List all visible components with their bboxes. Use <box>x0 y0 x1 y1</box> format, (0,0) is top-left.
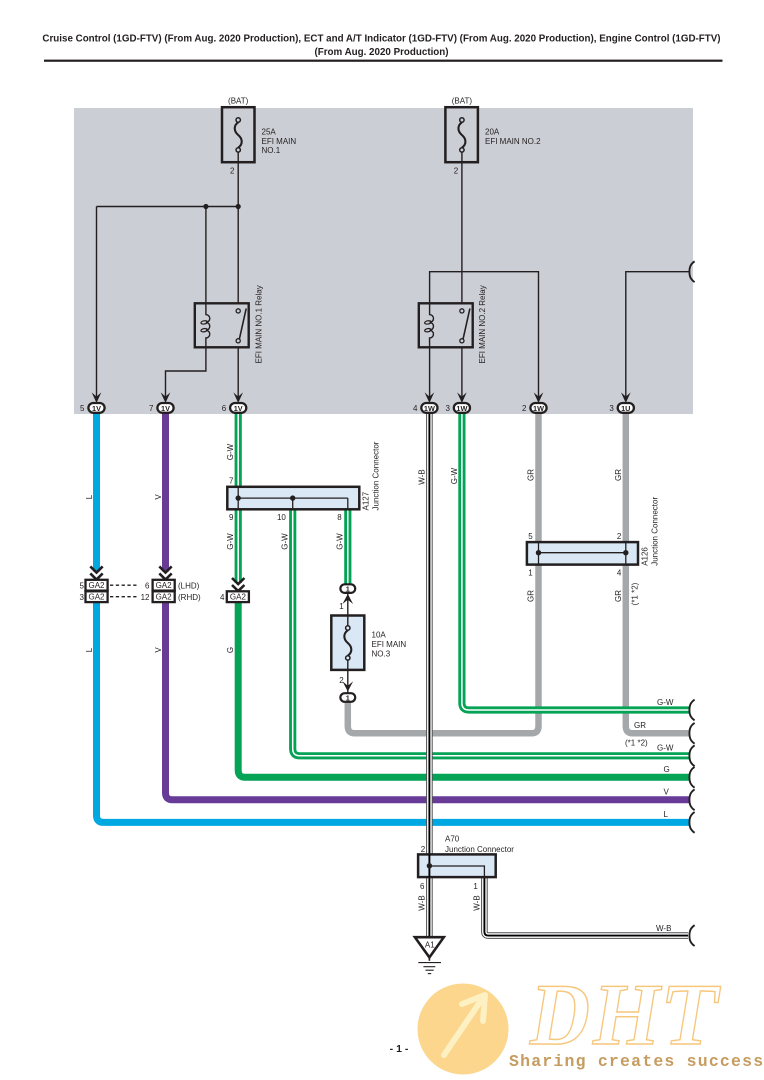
svg-text:3: 3 <box>80 593 85 602</box>
wire G-W oval 6-1V to A127 pin7 <box>235 413 242 488</box>
svg-text:GA2: GA2 <box>88 581 105 590</box>
svg-text:8: 8 <box>337 513 342 522</box>
svg-text:GR: GR <box>614 469 623 481</box>
wire junction horizontal to left branch <box>97 206 239 208</box>
gray panel <box>74 108 693 414</box>
wire V purple lower segment below GA2 to bus and break <box>166 602 691 800</box>
svg-text:(BAT): (BAT) <box>228 97 249 106</box>
fuse 25A EFI MAIN NO.1 <box>222 97 296 176</box>
svg-text:L: L <box>664 810 669 819</box>
svg-text:Sharing creates success: Sharing creates success <box>509 1052 764 1071</box>
svg-text:G-W: G-W <box>657 744 674 753</box>
svg-text:7: 7 <box>149 404 154 413</box>
svg-text:12: 12 <box>141 593 150 602</box>
junction connector A127 box <box>227 487 359 510</box>
svg-text:GR: GR <box>614 590 623 602</box>
svg-text:Cruise Control (1GD-FTV) (From: Cruise Control (1GD-FTV) (From Aug. 2020… <box>42 34 720 45</box>
junction dot fuse1/coil branch <box>203 204 208 209</box>
svg-text:1: 1 <box>528 569 533 578</box>
wire L cyan lower segment below GA2 to bus and break <box>97 602 691 822</box>
svg-text:5: 5 <box>80 404 85 413</box>
svg-text:(*1 *2): (*1 *2) <box>631 582 640 605</box>
svg-text:V: V <box>154 494 163 500</box>
svg-text:4: 4 <box>220 593 225 602</box>
svg-text:(BAT): (BAT) <box>452 97 473 106</box>
svg-text:4: 4 <box>617 569 622 578</box>
wire fuse1 to relay1 switch <box>237 162 239 304</box>
connector GA2 pin3 box (RHD row, L wire) <box>86 591 108 602</box>
fuse EFI MAIN NO.3 bottom terminal <box>346 656 350 660</box>
svg-text:GA2: GA2 <box>230 593 247 602</box>
connector GA2 pin12 box (RHD row, V wire) <box>153 591 175 602</box>
ground bar 1 <box>418 962 441 964</box>
wire A127 internal to pin10 <box>292 498 294 509</box>
wire fuse NO.3 internal top lead <box>347 616 349 626</box>
relay NO.2 coil <box>430 304 434 347</box>
svg-text:EFI MAIN NO.1 Relay: EFI MAIN NO.1 Relay <box>255 285 264 363</box>
svg-text:10: 10 <box>277 513 286 522</box>
wire fuse NO.3 internal bottom lead <box>347 660 349 670</box>
svg-text:(*1 *2): (*1 *2) <box>625 739 648 748</box>
svg-text:GR: GR <box>634 721 646 730</box>
ground bar 4 <box>428 973 431 975</box>
fuse EFI MAIN NO.1 top terminal <box>236 118 240 122</box>
fuse EFI MAIN NO.2 bottom terminal <box>460 148 464 152</box>
wire G-W A127 pin9 to GA2 4 <box>235 509 242 584</box>
svg-text:25A: 25A <box>262 128 277 137</box>
relay NO.2 switch blade <box>462 309 470 343</box>
svg-text:EFI MAIN: EFI MAIN <box>372 640 407 649</box>
svg-text:1U: 1U <box>621 404 630 413</box>
svg-text:1: 1 <box>346 585 350 594</box>
fuse EFI MAIN NO.1 element <box>235 122 242 147</box>
svg-text:G: G <box>664 765 670 774</box>
wire W-B vertical: oval 4-1W to A70 <box>426 413 433 855</box>
wire GR: A126 pin4 down to bus, right to break <box>626 564 690 733</box>
wire relay1 coil out jog to 7-1V <box>166 347 206 400</box>
fuse EFI MAIN NO.3 box <box>331 616 364 670</box>
svg-text:3: 3 <box>445 404 450 413</box>
svg-text:A126: A126 <box>640 547 649 566</box>
svg-text:Junction Connector: Junction Connector <box>650 497 659 566</box>
relay EFI MAIN NO.1 Relay box <box>195 303 249 347</box>
wire GR: oval 3-1U down to A126 pin2 <box>623 413 630 543</box>
relay NO.2 switch bottom contact <box>460 339 464 343</box>
wire relay2 switch out to 3-1W <box>461 347 463 400</box>
wire G green solid: below GA2 4 to bus <box>238 596 690 777</box>
svg-text:EFI MAIN: EFI MAIN <box>262 137 297 146</box>
svg-text:2: 2 <box>339 676 344 685</box>
wire fuse3 top oval stub <box>347 594 349 616</box>
svg-text:6: 6 <box>145 582 150 591</box>
svg-text:1W: 1W <box>424 404 435 413</box>
junction dot A127 left <box>236 495 241 500</box>
fuse EFI MAIN NO.3 element <box>344 630 351 655</box>
svg-text:3: 3 <box>609 404 614 413</box>
fuse 10A EFI MAIN NO.3 <box>331 616 406 670</box>
arrow into GA2 G-W wire lower chevron <box>232 585 244 591</box>
svg-text:GR: GR <box>527 469 536 481</box>
svg-text:DHT: DHT <box>525 966 730 1063</box>
arrow into GA2 G-W wire upper chevron <box>232 578 244 584</box>
fuse EFI MAIN NO.1 box <box>222 107 255 162</box>
junction dot A70 <box>427 863 432 868</box>
svg-text:G-W: G-W <box>336 533 345 550</box>
relay NO.1 switch bottom contact <box>236 339 240 343</box>
svg-text:Junction Connector: Junction Connector <box>372 441 381 510</box>
svg-text:5: 5 <box>528 532 533 541</box>
svg-text:6: 6 <box>420 882 425 891</box>
wire GR: oval 2-1W down to A126 pin5 <box>535 413 542 543</box>
svg-text:1V: 1V <box>234 404 243 413</box>
svg-text:L: L <box>85 647 94 652</box>
wire A126 internal pin5 to pin1 <box>538 542 540 565</box>
svg-text:GA2: GA2 <box>88 593 105 602</box>
connector GA2 pin4 box (G wire) <box>227 591 249 602</box>
wire GR: fuse NO.3 bottom oval right and up to A126 pin1 <box>348 564 539 733</box>
wire L cyan: oval 5-1V down through GA2 to bus, right to break <box>93 413 100 572</box>
svg-text:G-W: G-W <box>657 698 674 707</box>
svg-text:1: 1 <box>339 602 344 611</box>
connector GA2 pin5 box (LHD row, L wire) <box>86 580 108 591</box>
svg-text:1W: 1W <box>456 404 467 413</box>
svg-text:G-W: G-W <box>226 533 235 550</box>
svg-text:9: 9 <box>229 513 234 522</box>
arrow into connector 4-1W <box>425 392 435 403</box>
ground stem <box>428 957 430 960</box>
svg-text:L: L <box>85 494 94 499</box>
dashed link LHD row <box>110 584 137 586</box>
wire left branch down to 5-1V <box>96 207 98 401</box>
title <box>42 34 720 59</box>
wire A70 internal pin2 to pin6 <box>428 854 430 877</box>
connector oval 1W pin 4 <box>421 403 437 413</box>
relay NO.1 switch blade <box>239 309 247 343</box>
break V bus <box>689 789 694 810</box>
connector oval 1V pin 6 <box>230 403 246 413</box>
wire relay2 coil out to 4-1W <box>429 347 431 400</box>
arrow into connector 3-1U <box>621 392 631 403</box>
arrow into connector 2-1W <box>534 392 544 403</box>
wire fuse NO.2 internal lead <box>461 152 463 162</box>
wire fuse3 bottom stub <box>347 669 349 693</box>
wire A127 internal bus <box>238 497 348 499</box>
wire V purple: oval 7-1V down through GA2 to bus <box>162 413 169 572</box>
arrow into connector 3-1W <box>457 392 467 403</box>
wire A127 internal to pin8 <box>347 498 349 509</box>
svg-text:G: G <box>226 647 235 653</box>
svg-text:NO.3: NO.3 <box>372 649 391 658</box>
svg-text:Junction Connector: Junction Connector <box>445 845 514 854</box>
junction dot A127 middle <box>290 495 295 500</box>
fuse EFI MAIN NO.1 bottom terminal <box>236 148 240 152</box>
svg-text:A70: A70 <box>445 834 460 843</box>
arrow into GA2 L wire upper chevron <box>90 566 102 572</box>
relay NO.1 coil <box>206 304 210 347</box>
svg-text:- 1 -: - 1 - <box>390 1043 409 1055</box>
svg-text:(RHD): (RHD) <box>178 593 201 602</box>
break GR bus <box>689 723 694 744</box>
svg-text:EFI MAIN NO.2 Relay: EFI MAIN NO.2 Relay <box>478 285 487 363</box>
wire right break to 3-1U <box>626 272 690 400</box>
svg-text:V: V <box>154 647 163 653</box>
junction dot A126 left <box>536 550 541 555</box>
svg-text:G-W: G-W <box>281 533 290 550</box>
svg-text:5: 5 <box>80 582 85 591</box>
svg-text:4: 4 <box>413 404 418 413</box>
wire A126 internal bus <box>539 552 626 554</box>
svg-text:2: 2 <box>522 404 527 413</box>
svg-text:(LHD): (LHD) <box>178 582 200 591</box>
relay EFI MAIN NO.2 Relay box <box>419 303 473 347</box>
arrow into connector 6-1V <box>233 392 243 403</box>
arrow into GA2 V wire lower chevron <box>159 573 171 579</box>
watermark arrow <box>444 995 485 1055</box>
wire coil branch down <box>205 207 207 305</box>
dashed link RHD row <box>110 596 137 598</box>
wire relay2 horizontal coil / 2-1W <box>430 272 539 400</box>
relay NO.1 switch top contact <box>236 309 240 313</box>
break G-W bus <box>689 700 694 721</box>
wire fuse2 to relay2 switch <box>461 162 463 304</box>
svg-text:W-B: W-B <box>656 924 671 933</box>
svg-text:(From Aug. 2020 Production): (From Aug. 2020 Production) <box>314 47 448 58</box>
svg-text:GA2: GA2 <box>156 593 173 602</box>
break L bus <box>689 812 694 833</box>
svg-text:2: 2 <box>421 845 426 854</box>
svg-text:1V: 1V <box>161 404 170 413</box>
arrow down into bottom oval 1 <box>343 681 354 691</box>
svg-text:7: 7 <box>229 476 234 485</box>
svg-text:20A: 20A <box>485 128 500 137</box>
junction connector A70 box <box>418 854 496 877</box>
fuse EFI MAIN NO.3 top terminal <box>346 626 350 630</box>
ground point A1 triangle <box>415 937 444 957</box>
svg-text:G-W: G-W <box>450 467 459 484</box>
svg-text:V: V <box>664 788 670 797</box>
svg-text:1V: 1V <box>92 404 101 413</box>
wire W-B: A70 pin6 to ground A1 <box>426 876 433 937</box>
svg-text:W-B: W-B <box>473 895 482 910</box>
fuse EFI MAIN NO.2 element <box>458 122 465 147</box>
arrow into GA2 V wire upper chevron <box>159 566 171 572</box>
svg-text:GR: GR <box>527 590 536 602</box>
connector oval 1W pin 2 <box>530 403 546 413</box>
svg-text:2: 2 <box>454 167 459 176</box>
wire A126 internal pin2 to pin4 <box>625 542 627 565</box>
svg-text:6: 6 <box>222 404 227 413</box>
svg-text:NO.1: NO.1 <box>262 146 281 155</box>
svg-text:1: 1 <box>473 882 478 891</box>
ground bar 2 <box>423 966 435 968</box>
ground bar 3 <box>426 969 434 971</box>
wire G-W A127 pin10 to bus, right to break <box>293 509 690 756</box>
break G-W bus 2 <box>689 745 694 766</box>
connector oval 1W pin 3 <box>454 403 470 413</box>
svg-text:1: 1 <box>346 694 350 703</box>
connector oval 1U pin 3 <box>618 403 634 413</box>
wire A127 internal pin7 to pin9 <box>237 487 239 510</box>
fuse 20A EFI MAIN NO.2 <box>445 97 541 176</box>
wire G-W oval 3-1W down to bus, right to break <box>462 413 690 710</box>
connector oval 1V pin 7 <box>157 403 173 413</box>
title rule <box>44 60 723 62</box>
relay NO.2 switch top contact <box>460 309 464 313</box>
svg-text:1W: 1W <box>533 404 544 413</box>
fuse EFI MAIN NO.2 top terminal <box>460 118 464 122</box>
arrow up into oval 1 <box>343 594 354 604</box>
svg-text:GA2: GA2 <box>156 581 173 590</box>
svg-text:W-B: W-B <box>418 469 427 484</box>
break top right <box>689 261 694 282</box>
connector oval 1 below fuse NO.3 <box>340 693 355 702</box>
watermark circle <box>418 984 509 1075</box>
relay EFI MAIN NO.1 Relay <box>195 285 264 363</box>
wire W-B: A70 pin1 down and right to break <box>484 876 688 936</box>
arrow into connector 7-1V <box>161 392 171 403</box>
arrow into GA2 L wire lower chevron <box>90 573 102 579</box>
svg-text:2: 2 <box>617 532 622 541</box>
wire relay1 switch out to 6-1V <box>237 347 239 400</box>
connector GA2 pin6 box (LHD row, V wire) <box>153 580 175 591</box>
wire fuse NO.1 internal lead <box>237 152 239 162</box>
svg-text:A127: A127 <box>362 491 371 510</box>
svg-text:2: 2 <box>230 167 235 176</box>
svg-text:G-W: G-W <box>226 443 235 460</box>
connector oval 1V pin 5 <box>88 403 104 413</box>
relay EFI MAIN NO.2 Relay <box>419 285 487 363</box>
junction connector A126 box <box>527 542 638 565</box>
svg-text:W-B: W-B <box>418 895 427 910</box>
wire A70 internal branch to pin1 <box>429 866 484 877</box>
break G bus <box>689 767 694 788</box>
svg-text:10A: 10A <box>372 631 387 640</box>
junction dot A126 right <box>623 550 628 555</box>
svg-text:EFI MAIN NO.2: EFI MAIN NO.2 <box>485 137 541 146</box>
wire G-W A127 pin8 to fuse oval <box>344 509 351 585</box>
junction dot fuse1 wire <box>236 204 241 209</box>
svg-text:A1: A1 <box>425 941 435 950</box>
fuse EFI MAIN NO.2 box <box>445 107 478 162</box>
arrow into connector 5-1V <box>92 392 102 403</box>
break W-B bus <box>689 925 694 946</box>
connector oval 1 above fuse NO.3 <box>340 584 355 593</box>
